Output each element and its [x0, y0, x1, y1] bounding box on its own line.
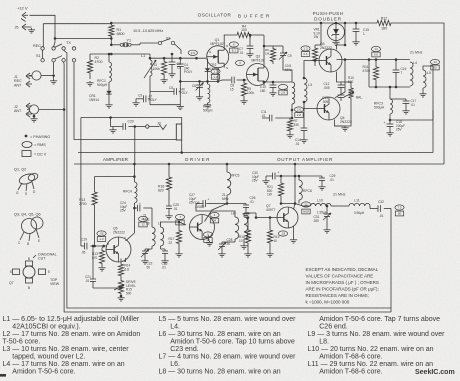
testpoint Q5 base: [97, 231, 106, 236]
wire L4 bottom bus: [369, 86, 410, 88]
wire L5 bottom: [422, 88, 424, 92]
wire osc to C8: [218, 80, 222, 81]
wire feedback y=81.4: [180, 80, 218, 82]
ground C1: [171, 72, 173, 74]
inductor L2: [292, 82, 295, 104]
wire C7 node to Q2 drain: [263, 35, 265, 64]
ground C18: [389, 131, 391, 133]
capacitor C6 trimmer: [199, 81, 201, 85]
ground J1: [53, 79, 55, 81]
ground L9: [243, 244, 245, 246]
resistor R15 base: [99, 248, 104, 266]
inductor RFC4: [134, 182, 137, 203]
wire switch contacts: [54, 38, 56, 42]
testpoint Q1 drain: [229, 42, 238, 47]
inductor L11: [349, 203, 370, 206]
capacitor C32: [369, 206, 371, 209]
ground R18: [247, 252, 249, 254]
wire top +12V rail y=23 left part: [43, 23, 111, 25]
wire key box top: [81, 118, 182, 125]
capacitor C8: [222, 79, 231, 81]
resistor R17: [176, 222, 181, 252]
wire C27 to L8: [196, 207, 235, 217]
capacitor C15: [355, 23, 357, 29]
wire C24 to L6: [151, 208, 153, 227]
ground R15 pot: [120, 296, 122, 298]
wire J2 to TR line: [39, 109, 65, 111]
wire doubler collector bus: [337, 59, 411, 61]
wire J1 to switch: [41, 75, 54, 77]
wire R4 to C7 node: [255, 34, 264, 36]
resistor R21: [278, 179, 283, 200]
switch S1 pole A: [41, 47, 44, 50]
inductor L6: [152, 227, 155, 246]
diode CR2: [207, 58, 209, 68]
capacitor C10: [270, 84, 277, 86]
capacitor C26: [227, 203, 246, 205]
wire S2 to tank: [175, 44, 182, 54]
capacitor C16: [395, 60, 397, 70]
scan noise overlay: [0, 0, 1, 1]
wire L5 top to drop: [423, 66, 433, 70]
wire PA collector node: [281, 203, 295, 205]
wire tank bottom: [149, 99, 151, 105]
resistor R8: [312, 45, 317, 64]
inductor L3: [304, 78, 307, 102]
testpoint Q1 gate: [188, 50, 197, 55]
transistor Q5: [106, 237, 131, 262]
ground C7: [249, 52, 251, 54]
testpoint Q2 source: [278, 84, 287, 89]
capacitor C23: [160, 246, 162, 249]
wire Q3 emitter: [337, 72, 342, 83]
wire R13 branch: [95, 177, 135, 185]
wire key to RFC4 column: [134, 127, 136, 165]
ground J2: [33, 117, 35, 119]
testpoint L5: [430, 59, 439, 64]
ground R17: [178, 252, 180, 254]
wire TX line x=74 to key box: [74, 62, 176, 140]
ground R3: [163, 78, 165, 80]
inductor L1: [150, 60, 152, 76]
wire L1 bottom: [149, 76, 151, 92]
switch S1 pole B: [41, 59, 44, 62]
testpoint output: [395, 205, 404, 210]
ground R2: [89, 81, 91, 83]
corner mark: [0, 374, 6, 377]
ground C30: [265, 179, 267, 181]
wire inner feed line y=152.5: [78, 152, 433, 154]
wire key box to feed line: [181, 140, 183, 153]
resistor R2: [87, 54, 92, 79]
wire RFC3 to C18: [389, 114, 391, 120]
inductor L10: [311, 203, 332, 206]
wire lower +12V rail y=164: [74, 163, 444, 165]
wire Q6 collector: [205, 195, 228, 222]
legend DC box: [22, 151, 31, 157]
ground C6: [199, 95, 201, 97]
wire top rail right + right drop: [395, 23, 444, 164]
wire bus to RFC3: [389, 87, 391, 99]
wire Q2 source to L2: [264, 81, 292, 83]
wire L7 to Q6 base: [161, 222, 187, 227]
wire Q5 collector: [126, 203, 135, 241]
wire L2 bottom to R7: [291, 104, 293, 118]
resistor R16: [166, 164, 171, 203]
ground C23: [164, 259, 166, 261]
ground C3: [135, 99, 137, 101]
inductor L9: [244, 217, 248, 239]
ground C15: [355, 40, 357, 42]
connector +12V arrow: [22, 12, 26, 15]
resistor R5: [241, 80, 246, 99]
capacitor C30: [276, 175, 295, 177]
capacitor C1: [171, 54, 173, 62]
wire doubler output drop x=433: [432, 66, 434, 153]
resistor R4: [233, 32, 255, 37]
inductor L7: [161, 227, 164, 246]
resistor R14: [118, 262, 123, 278]
capacitor C31 trimmer: [331, 205, 336, 207]
resistor R6: [264, 45, 273, 47]
resistor R1: [109, 23, 114, 38]
jack J3 contact: [135, 126, 146, 128]
transistor Q4: [317, 97, 340, 120]
inductor L4: [410, 62, 413, 86]
capacitor C18 electrolytic: [389, 120, 391, 124]
ground R7: [289, 133, 291, 135]
ground C22: [144, 259, 146, 261]
resistor R12: [373, 20, 395, 25]
wire Q3 collector: [337, 23, 346, 50]
ground C25: [168, 214, 170, 216]
resistor R10 BAL: [348, 86, 353, 100]
wire rail left drop to switch: [42, 24, 44, 47]
jack J3 plug: [149, 126, 160, 128]
resistor R7: [287, 118, 292, 133]
wire Q4 collector riser: [335, 60, 345, 98]
ground C17: [405, 109, 407, 111]
jack J2 body: [29, 105, 38, 114]
ground tank: [179, 105, 181, 107]
legend phasing dot: [25, 135, 28, 138]
ground RFC2: [207, 103, 209, 105]
testpoint Q2 gate: [235, 60, 244, 65]
capacitor C17: [405, 99, 407, 101]
capacitor C14: [303, 102, 305, 128]
testpoint Q5 collector: [138, 216, 147, 221]
testpoint L2 bottom: [294, 107, 303, 112]
wire crystal: [111, 44, 120, 46]
jack J1 body: [32, 71, 41, 80]
inductor RFC1: [109, 62, 112, 82]
wire L9 bottom: [243, 239, 245, 244]
ground C14: [303, 138, 305, 140]
wire Q7 emitter: [293, 226, 295, 238]
ground Q7: [293, 238, 295, 240]
capacitor C12: [340, 82, 342, 85]
wire Q1 source: [217, 68, 219, 81]
wire L10 to L11: [336, 205, 349, 207]
inductor L5: [423, 70, 426, 88]
inductor RFC5: [227, 172, 231, 195]
ground CR1: [108, 103, 110, 105]
package drawing Q1/Q2: [18, 172, 36, 186]
resistor R3: [162, 58, 167, 78]
transistor Q1: [207, 46, 229, 68]
zener VR1: [328, 24, 345, 41]
package drawing Q3-Q6: [22, 219, 37, 234]
capacitor C24: [134, 207, 137, 209]
wire gate line y=54: [90, 53, 150, 55]
transistor Q7: [277, 207, 298, 228]
ground R19: [269, 252, 271, 254]
wire antenna feed x=391: [390, 209, 392, 313]
ground L5: [422, 92, 424, 94]
resistor R13: [92, 185, 97, 212]
wire amp feed drop x=80.9: [80, 118, 82, 247]
junction dots gate line: [110, 53, 113, 56]
wire VR1: [320, 23, 322, 45]
inductor RFC2: [208, 84, 210, 103]
wire +12V entry to switch: [30, 15, 56, 38]
capacitor C27: [213, 203, 227, 205]
wire Q1 drain to R4: [224, 35, 233, 46]
capacitor C3: [149, 92, 151, 99]
capacitor C29: [295, 175, 322, 177]
ground Q6 emitter: [209, 241, 211, 243]
capacitor C4: [179, 58, 181, 64]
capacitor C28 trimmer: [234, 239, 236, 242]
ground C20 line: [112, 128, 114, 130]
ground C31: [326, 228, 328, 230]
wire Q5 emitter: [125, 258, 127, 262]
capacitor C5: [150, 91, 174, 93]
capacitor C11: [262, 117, 269, 119]
testpoint Q6 emitter: [203, 232, 212, 237]
resistor R19: [267, 221, 272, 252]
wire L9 to Q7 base: [243, 213, 245, 217]
wire Q4 emitter: [335, 100, 352, 126]
testpoint doubler base: [301, 46, 310, 51]
inductor RFC6: [299, 180, 302, 200]
ground R15: [101, 266, 103, 268]
wire Q6 emitter: [208, 236, 210, 242]
capacitor C9 trimmer: [273, 45, 283, 47]
testpoint Q1 source: [211, 69, 220, 74]
diode CR1: [108, 82, 110, 91]
testpoint Q6 base: [175, 214, 184, 219]
wire RFC4 drop: [133, 164, 135, 182]
capacitor C25: [168, 203, 170, 206]
ground VR1: [335, 41, 337, 43]
wire TR line x=64: [64, 62, 391, 312]
pot R15 drive level: [118, 278, 123, 296]
ground C26: [245, 212, 247, 214]
resistor R18: [245, 221, 250, 252]
transistor Q6: [190, 215, 215, 240]
ground R5: [243, 99, 245, 101]
ground C29: [321, 185, 323, 187]
wire Q2 source: [263, 82, 265, 84]
wire Q7 collector: [294, 204, 296, 210]
ground C10: [272, 91, 274, 93]
testpoint Q7 collector: [301, 202, 310, 207]
legend RMS ellipse: [22, 142, 32, 148]
testpoint Q7 emitter: [278, 231, 287, 236]
wire TR line x=67: [64, 50, 391, 308]
wire R13 to base node: [94, 212, 96, 246]
resistor R11: [373, 60, 378, 87]
package drawing Q7: [23, 266, 35, 278]
ground C28: [221, 252, 223, 254]
transistor Q3: [319, 49, 342, 72]
wire L3 to bases: [304, 61, 319, 79]
wire PA rail drop: [294, 164, 296, 204]
testpoint Q6 collector: [210, 212, 219, 217]
transistor Q2: [247, 64, 269, 86]
capacitor C22 trimmer: [151, 246, 153, 249]
wire switched 12V to R1: [55, 37, 111, 39]
testpoint collector bus: [371, 46, 380, 51]
ground doubler emitters: [344, 126, 346, 128]
wire J5 ground: [28, 26, 32, 28]
inductor L8: [235, 217, 239, 239]
capacitor C21: [92, 246, 94, 276]
inductor RFC3: [390, 99, 393, 114]
